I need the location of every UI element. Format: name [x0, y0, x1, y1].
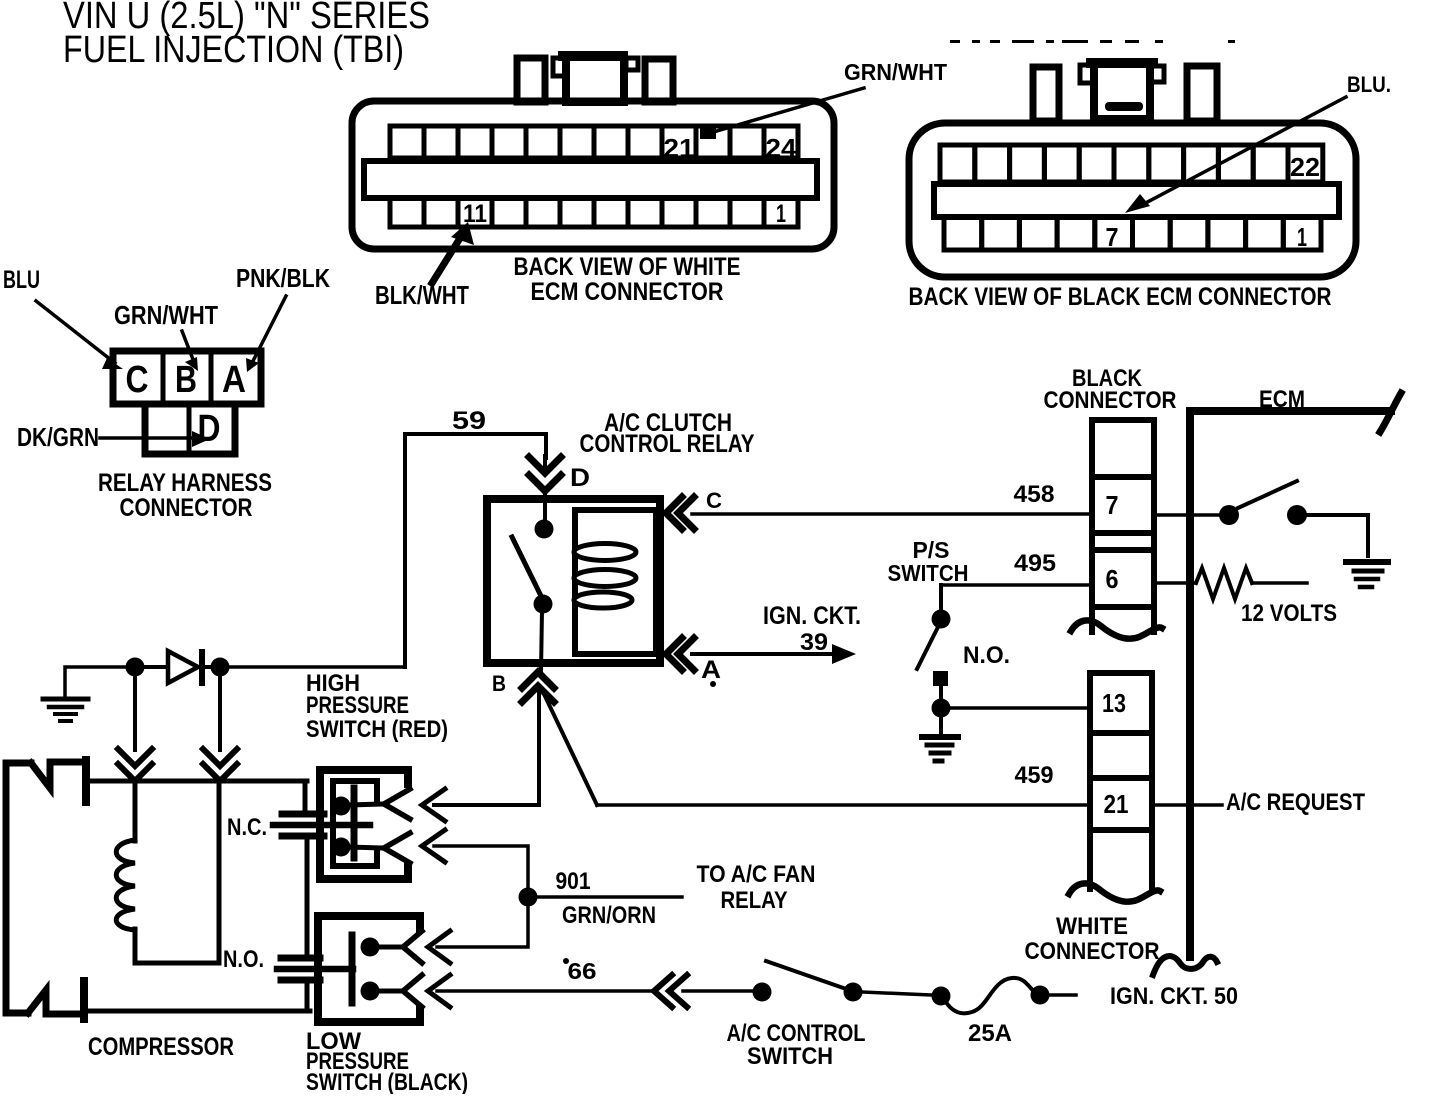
connector J2 tab right	[1187, 66, 1217, 121]
svg-text:SWITCH: SWITCH	[888, 560, 969, 586]
HP switch terminal 1 dot and fork	[332, 797, 351, 816]
ECM boundary vertical line	[1186, 411, 1194, 957]
wire pin 6 to resistor	[1154, 581, 1196, 585]
stray scan dot	[710, 681, 716, 687]
svg-text:WHITE: WHITE	[1056, 913, 1128, 940]
relay harness connector body	[113, 351, 261, 404]
wire relay B to HP terminal 1	[537, 690, 541, 805]
white connector wavy bottom	[1069, 883, 1160, 901]
svg-text:59: 59	[452, 407, 486, 435]
svg-text:ECM: ECM	[1259, 386, 1305, 413]
relay harness connector lower row	[145, 404, 235, 454]
svg-text:BACK VIEW OF BLACK ECM CONNECT: BACK VIEW OF BLACK ECM CONNECTOR	[909, 283, 1332, 311]
svg-text:1: 1	[1297, 222, 1307, 252]
svg-text:RELAY: RELAY	[721, 887, 788, 914]
svg-text:458: 458	[1014, 481, 1055, 508]
wire drop to compressor terminal 2 with chevrons	[218, 676, 222, 750]
svg-text:GRN/ORN: GRN/ORN	[562, 902, 656, 929]
wire from relay switch to terminal B	[541, 610, 542, 672]
wire ECM switch to ground	[1306, 515, 1368, 556]
connector J1 bottom pin row	[390, 198, 424, 227]
svg-text:7: 7	[1106, 490, 1119, 520]
ECM switch contact dot right	[1287, 505, 1307, 525]
connector J1 top pin row	[390, 126, 424, 158]
connector J1 white ECM connector body	[352, 101, 834, 249]
diagonal wire relay B to 459	[543, 692, 597, 805]
wire A/C REQUEST from pin 21	[1152, 803, 1222, 807]
connector J2 tab left	[1033, 67, 1059, 121]
junction dot left of diode	[126, 658, 145, 677]
ECM switch blade	[1238, 481, 1297, 508]
svg-text:FUEL INJECTION (TBI): FUEL INJECTION (TBI)	[63, 29, 404, 71]
svg-text:N.C.: N.C.	[227, 814, 267, 841]
wire compressor to N.C. plate	[303, 781, 308, 812]
svg-text:D: D	[570, 464, 590, 492]
A/C control switch right dot	[844, 983, 863, 1002]
P/S switch blade	[917, 625, 939, 669]
svg-text:CONTROL RELAY: CONTROL RELAY	[580, 430, 755, 458]
relay K1 box	[487, 499, 660, 663]
black connector column (ECM side)	[1092, 420, 1154, 632]
svg-text:SWITCH: SWITCH	[747, 1043, 833, 1070]
wire ground to diode	[65, 667, 127, 696]
P/S switch upper contact	[939, 585, 943, 611]
svg-text:PNK/BLK: PNK/BLK	[236, 263, 330, 293]
svg-text:SWITCH (RED): SWITCH (RED)	[306, 716, 448, 743]
svg-text:CONNECTOR: CONNECTOR	[1044, 387, 1177, 414]
arrow into LP terminal 2	[428, 975, 450, 1007]
terminal C chevrons	[666, 497, 682, 529]
svg-text:BLK/WHT: BLK/WHT	[375, 280, 469, 310]
svg-text:1: 1	[776, 200, 786, 228]
A/C control switch left dot	[753, 983, 772, 1002]
pin notch GRN/WHT target	[700, 126, 716, 139]
P/S switch junction dot	[932, 699, 951, 718]
wire fuse to IGN CKT 50	[1049, 993, 1076, 997]
relay switch blade	[512, 537, 542, 598]
svg-text:CONNECTOR: CONNECTOR	[120, 494, 253, 522]
svg-text:DK/GRN: DK/GRN	[17, 422, 99, 452]
terminal A chevrons	[666, 638, 682, 670]
svg-text:39: 39	[800, 629, 828, 656]
connector J2 top pin row	[940, 145, 975, 182]
connector J2 black ECM connector body	[909, 123, 1356, 277]
black connector wavy bottom	[1071, 620, 1162, 638]
terminal B chevrons	[522, 672, 554, 688]
diode D1	[144, 665, 166, 669]
ECM boundary break slash	[1380, 393, 1401, 432]
ECM boundary horizontal line	[1190, 407, 1391, 415]
svg-text:SWITCH (BLACK): SWITCH (BLACK)	[306, 1069, 468, 1094]
svg-text:901: 901	[556, 868, 591, 895]
svg-text:N.O.: N.O.	[963, 642, 1010, 669]
svg-text:25A: 25A	[968, 1020, 1012, 1047]
compressor clutch coil	[133, 781, 138, 841]
svg-text:BLU: BLU	[3, 266, 40, 294]
connector J1 tab center	[566, 55, 624, 102]
wire compressor to N.O. plate	[305, 839, 310, 955]
relay switch upper contact dot	[535, 520, 554, 539]
N.C. contact plates	[282, 811, 324, 818]
wire 495 from P/S switch to black connector pin 6	[941, 583, 1092, 587]
wire D into relay	[543, 456, 547, 472]
wire 459 to white connector pin 21	[597, 803, 1090, 807]
connector J2 tab center	[1094, 62, 1150, 119]
relay coil loop 3	[574, 592, 632, 608]
low pressure switch actuator bar	[349, 935, 356, 1003]
svg-text:BACK VIEW OF WHITE: BACK VIEW OF WHITE	[514, 253, 741, 281]
fuse 25A wavy element	[943, 978, 1040, 1013]
wire drop to compressor terminal 1 with chevrons	[133, 676, 137, 750]
svg-text:22: 22	[1290, 152, 1320, 182]
svg-text:7: 7	[1106, 222, 1119, 252]
resistor 12 VOLTS zigzag	[1196, 568, 1252, 599]
svg-text:459: 459	[1015, 762, 1054, 789]
HP switch terminal 2 dot and fork	[332, 838, 351, 857]
A/C control switch blade	[766, 961, 849, 990]
relay coil box	[575, 510, 656, 654]
connector J1 middle bar	[364, 161, 817, 198]
wire chevrons to A/C control switch	[683, 989, 753, 993]
scan noise dashes	[950, 40, 960, 43]
svg-text:66: 66	[568, 958, 597, 984]
high pressure switch inner bracket	[333, 781, 377, 866]
svg-text:RELAY HARNESS: RELAY HARNESS	[98, 469, 272, 497]
white connector column (ECM side)	[1090, 673, 1152, 889]
svg-text:A: A	[701, 656, 721, 684]
svg-text:C: C	[706, 488, 722, 513]
compressor top terminal wire	[88, 779, 307, 784]
svg-text:ECM CONNECTOR: ECM CONNECTOR	[531, 278, 724, 306]
wire junction to LP terminal 1	[437, 906, 528, 947]
ECM switch contact dot left	[1219, 505, 1239, 525]
wire HP terminal 2 to junction	[434, 846, 528, 889]
ground symbol P/S	[922, 734, 958, 740]
arrow into LP terminal 1	[428, 931, 450, 963]
LP switch terminal 1 dot and fork	[361, 938, 380, 957]
wire 66 chevrons	[654, 975, 672, 1007]
arrow into HP terminal 1	[422, 789, 445, 821]
svg-text:13: 13	[1102, 688, 1126, 718]
svg-text:21: 21	[1104, 789, 1129, 819]
svg-text:BLU.: BLU.	[1347, 72, 1391, 97]
svg-text:GRN/WHT: GRN/WHT	[844, 59, 947, 85]
terminal D chevrons	[529, 457, 561, 473]
wire 901 GRN/ORN to A/C fan relay	[537, 895, 682, 899]
svg-text:A/C REQUEST: A/C REQUEST	[1226, 789, 1365, 816]
svg-text:IGN. CKT. 50: IGN. CKT. 50	[1110, 983, 1238, 1010]
svg-text:IGN. CKT.: IGN. CKT.	[763, 602, 861, 630]
relay switch lower contact dot	[534, 595, 553, 614]
svg-text:B: B	[492, 671, 506, 696]
connector J1 tab right	[645, 59, 673, 102]
high pressure switch actuator bar	[351, 788, 358, 858]
connector J1 tab left	[517, 58, 545, 102]
svg-text:12 VOLTS: 12 VOLTS	[1241, 600, 1337, 627]
arrow into HP terminal 2	[422, 830, 445, 862]
P/S switch lower contact square	[933, 671, 948, 686]
fuse 25A right dot	[1031, 986, 1050, 1005]
connector J2 bottom pin row	[944, 217, 982, 250]
relay coil loop 1	[574, 544, 636, 561]
LP switch terminal 2 dot and fork	[361, 982, 380, 1001]
N.O. contact plates	[281, 955, 320, 962]
wire IGN CKT 39 with arrow	[692, 652, 836, 656]
wire switch to fuse	[862, 992, 932, 995]
low pressure switch (black) bracket	[318, 916, 420, 1022]
svg-text:COMPRESSOR: COMPRESSOR	[88, 1033, 234, 1061]
ground symbol left	[43, 697, 88, 702]
svg-text:TO A/C FAN: TO A/C FAN	[697, 861, 816, 888]
svg-text:495: 495	[1014, 550, 1056, 577]
relay coil loop 2	[574, 570, 636, 587]
fuse 25A left dot	[932, 987, 951, 1006]
svg-text:N.O.: N.O.	[223, 946, 264, 973]
wire 458 from terminal C to black connector pin 7	[692, 512, 1092, 516]
svg-text:D: D	[198, 408, 221, 450]
svg-text:A: A	[222, 359, 246, 401]
junction dot right of diode	[211, 658, 230, 677]
svg-text:GRN/WHT: GRN/WHT	[114, 300, 218, 330]
wire 59 from diode junction to relay terminal D	[405, 434, 546, 667]
svg-text:PRESSURE: PRESSURE	[306, 692, 409, 719]
ECM boundary bottom squiggle	[1153, 956, 1217, 975]
ground symbol right	[1346, 559, 1388, 565]
wire pin 7 to ECM switch	[1154, 513, 1220, 517]
svg-text:C: C	[126, 359, 149, 401]
wire P/S switch to ground	[939, 717, 943, 733]
svg-text:6: 6	[1106, 564, 1119, 594]
wire P/S switch to white connector pin 13	[950, 706, 1090, 710]
high pressure switch (red) outer bracket	[320, 770, 408, 879]
connector J2 middle bar	[934, 184, 1339, 217]
compressor outline	[6, 763, 31, 1013]
compressor bottom terminal wire	[86, 1009, 310, 1014]
wire 66	[437, 989, 651, 993]
wire diode to 59 riser	[229, 665, 405, 669]
svg-text:CONNECTOR: CONNECTOR	[1025, 938, 1160, 965]
junction dot 901	[519, 888, 538, 907]
